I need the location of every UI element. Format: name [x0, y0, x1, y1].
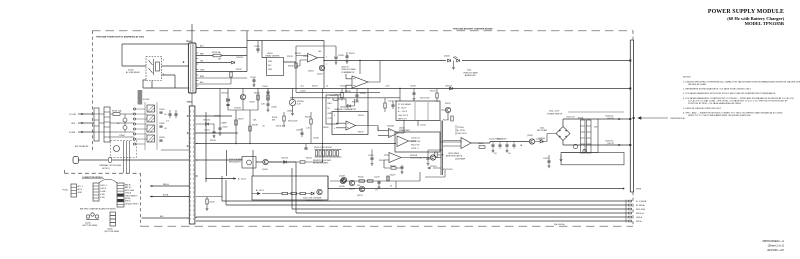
- svg-text:SW B+: SW B+: [125, 201, 132, 203]
- svg-text:5 SW: 5 SW: [100, 197, 105, 199]
- resistor R5219: [451, 116, 453, 121]
- wire opamp out: [318, 57, 325, 59]
- svg-text:5200 VOLTAGE: 5200 VOLTAGE: [229, 158, 243, 161]
- speaker sense wire: [328, 176, 624, 189]
- junction dots mid: [235, 143, 236, 144]
- svg-text:.05: .05: [164, 128, 167, 130]
- transistor bottom view lead 3: [95, 215, 98, 218]
- diode VR5202 sym: [348, 105, 351, 108]
- svg-text:3 GND: 3 GND: [100, 191, 106, 193]
- capacitor C5234 sym: [355, 95, 358, 96]
- wire BLK: [142, 217, 190, 219]
- return loop box: [561, 153, 624, 165]
- wire filter verticals: [136, 102, 157, 150]
- wire c5212: [371, 150, 373, 163]
- resistor R5218h: [300, 161, 305, 163]
- wire secondary tap wires: [196, 116, 396, 144]
- capacitor C5002: [159, 126, 162, 127]
- svg-text:C5222: C5222: [543, 158, 549, 160]
- svg-text:(BOTTOM VIEW): (BOTTOM VIEW): [105, 231, 120, 233]
- svg-text:A+ 14.2V: A+ 14.2V: [256, 189, 265, 192]
- svg-text:R5217 1K: R5217 1K: [411, 144, 420, 146]
- transformer T5200 secondary taps: [187, 116, 197, 218]
- svg-text:U5201A: U5201A: [410, 154, 418, 157]
- svg-text:R5227: R5227: [390, 175, 396, 177]
- svg-text:TP VOLTAGES: TP VOLTAGES: [398, 103, 412, 106]
- svg-text:CHG 14.2V: CHG 14.2V: [457, 133, 467, 135]
- capacitor C5240: [377, 182, 380, 183]
- svg-text:AC N: AC N: [78, 188, 83, 191]
- wire row: [330, 172, 420, 181]
- ground c5213: [401, 171, 404, 174]
- svg-text:C5004: C5004: [119, 135, 125, 137]
- transistor Q5207: [573, 144, 577, 148]
- LED DS5200: [457, 59, 460, 62]
- transistor Q5210: [341, 177, 346, 182]
- diode CR5231: [232, 61, 235, 64]
- wire c5232: [346, 52, 348, 60]
- svg-text:R52: R52: [594, 126, 597, 128]
- wire AC main lower: [78, 159, 189, 161]
- svg-text:B+ 13.8V: B+ 13.8V: [457, 130, 466, 132]
- resistor R5245: [387, 176, 389, 181]
- svg-text:R5230: R5230: [288, 65, 294, 67]
- capacitor C5210b: [391, 105, 394, 106]
- board outline left dashed: [91, 31, 93, 152]
- wire cap drops: [493, 142, 514, 150]
- connector J5203 pins: [117, 186, 124, 205]
- wire RED A: [150, 185, 189, 187]
- svg-text:R5219: R5219: [445, 103, 451, 105]
- svg-text:5200—5207: 5200—5207: [549, 111, 559, 113]
- svg-text:NOTES:: NOTES:: [683, 77, 691, 79]
- svg-text:CR5203: CR5203: [203, 120, 210, 122]
- AC plug symbol: [73, 157, 79, 164]
- board outline lower-left dashed: [140, 173, 142, 226]
- wire q5204: [440, 110, 462, 142]
- wire vr drops: [292, 89, 294, 113]
- svg-text:DISCONNECT: DISCONNECT: [125, 195, 138, 197]
- svg-text:C5220: C5220: [209, 202, 215, 204]
- resistor R5205: [330, 151, 332, 157]
- wire c5204: [267, 89, 269, 97]
- svg-text:5200 LOW VOLTAGE: 5200 LOW VOLTAGE: [303, 196, 322, 199]
- resistor R5202: [319, 151, 321, 157]
- junction dot x206: [205, 178, 206, 179]
- svg-text:HORIZONTAL ON: HORIZONTAL ON: [410, 156, 426, 159]
- svg-text:AC LINE RELAY: AC LINE RELAY: [126, 71, 141, 74]
- wire drops row: [379, 176, 396, 189]
- wire cr5203: [196, 124, 214, 132]
- wire mid drop: [305, 144, 307, 149]
- junction dot: [183, 61, 185, 63]
- wire r5222: [396, 165, 402, 171]
- board outline bottom dashed: [141, 225, 634, 227]
- svg-text:ANT DETAIL A1: ANT DETAIL A1: [75, 145, 88, 148]
- wire pass out: [471, 142, 529, 144]
- label power switch leader: [568, 111, 624, 113]
- svg-text:CHG 14.2 V: CHG 14.2 V: [398, 115, 409, 117]
- transistor bottom view lead 2: [91, 213, 94, 216]
- capacitor C5236 sym: [304, 148, 307, 149]
- resistor R5203: [323, 151, 325, 157]
- IC U5201 relay driver box: [267, 58, 284, 76]
- connector J5202: [93, 183, 99, 201]
- svg-text:VALUES IN OHMS.: VALUES IN OHMS.: [688, 83, 707, 86]
- junction: [322, 143, 323, 144]
- wire vertical x250: [249, 110, 251, 144]
- svg-text:C5211 .1: C5211 .1: [411, 148, 419, 150]
- ground r5211: [267, 109, 270, 112]
- svg-text:YEL: YEL: [200, 61, 204, 63]
- wire relay to transformer: [143, 66, 189, 88]
- svg-text:BAT B+: BAT B+: [125, 184, 132, 187]
- capacitor C5212 sym: [370, 158, 373, 159]
- capacitor C5206: [266, 104, 269, 105]
- transistor inside: [247, 160, 252, 165]
- svg-text:2. REPEATERS IN END BRACKETS: 2. REPEATERS IN END BRACKETS. VOLTAGE IS…: [683, 88, 752, 91]
- diode CR5203: [540, 140, 543, 143]
- overterm arrow: [638, 117, 668, 120]
- arrow N: [81, 131, 84, 133]
- transformer core marks: [191, 110, 194, 220]
- wire caps to transformer: [161, 149, 189, 151]
- svg-text:STABILIZER: STABILIZER: [399, 129, 410, 132]
- transistor Q5211: [359, 186, 364, 191]
- op-amp U5201B: [352, 76, 368, 88]
- wire c5240a: [169, 110, 171, 118]
- ground vr: [291, 112, 294, 115]
- wire alarm stub: [453, 61, 455, 67]
- wire c5214b: [428, 150, 443, 162]
- thermal detail dashed box: [111, 141, 137, 158]
- bottom view base line: [86, 219, 99, 221]
- transistor Q5204s: [430, 155, 435, 160]
- wire varistor: [124, 114, 126, 132]
- svg-text:JE/15/90—UP: JE/15/90—UP: [767, 248, 784, 252]
- bus bottom cap: [630, 191, 633, 193]
- arrow GRD: [81, 122, 84, 124]
- svg-text:R5222: R5222: [390, 165, 396, 167]
- capacitor C5232: [345, 56, 348, 57]
- board outline right dashed top: [632, 31, 634, 40]
- capacitor C5217: [505, 145, 508, 146]
- bracket line: [455, 125, 457, 135]
- package stripes: [110, 216, 116, 223]
- op-amp U5201 pass regulator: [461, 138, 471, 149]
- arrow L1: [81, 113, 84, 115]
- svg-text:5. USED IN VHF/UHF STATIONS: 5. USED IN VHF/UHF STATIONS ONLY.: [683, 107, 722, 110]
- LED arrow: [453, 56, 458, 59]
- wire riser x360: [359, 61, 361, 75]
- diode CR5200: [227, 99, 230, 102]
- svg-text:U5200: U5200: [107, 229, 113, 231]
- svg-text:68P81099E94—A: 68P81099E94—A: [762, 239, 784, 243]
- wire r5211: [267, 89, 269, 109]
- ground c5222: [548, 165, 551, 168]
- wire c5240b: [175, 110, 177, 118]
- op-amp stabilizer: [397, 136, 409, 147]
- wire lower stub: [425, 170, 445, 177]
- wire vertical x236: [235, 110, 237, 144]
- svg-text:R5234: R5234: [295, 53, 301, 55]
- transformer T5200 primary taps: [196, 48, 198, 87]
- bus wire 2: [226, 180, 628, 205]
- svg-text:R5225: R5225: [443, 119, 449, 121]
- svg-text:POWER SUPPLY MODULE: POWER SUPPLY MODULE: [708, 9, 784, 15]
- bridge diodes: [559, 130, 567, 138]
- capacitor C5221 sym: [212, 132, 215, 133]
- svg-text:GND: GND: [328, 113, 333, 115]
- svg-text:1: 1: [326, 64, 327, 66]
- svg-text:C5207: C5207: [300, 91, 306, 93]
- resistor ladder R5201-R5208 rail top: [315, 149, 342, 151]
- wire bridge bottom: [563, 141, 621, 146]
- wire vertical x220: [219, 89, 221, 125]
- svg-text:GND A: GND A: [636, 216, 643, 219]
- bus wire 5: [196, 216, 628, 218]
- svg-text:3: 3: [163, 59, 164, 61]
- relay K5200 dashed box: [146, 57, 162, 81]
- wire reg: [196, 160, 296, 166]
- wire r5250: [206, 204, 208, 207]
- bus top cap: [630, 39, 633, 41]
- resistor R5243: [359, 180, 365, 182]
- wire top run: [122, 44, 188, 66]
- wire vertical x253: [252, 150, 254, 176]
- J5203 filled pin: [117, 194, 123, 196]
- NOTES-BLOCK: [683, 77, 800, 118]
- wire c5208t: [335, 58, 337, 61]
- wire u5200b: [378, 120, 404, 135]
- ground c5208: [413, 97, 416, 100]
- svg-text:R5221: R5221: [379, 160, 385, 162]
- svg-text:R5248: R5248: [438, 154, 444, 156]
- svg-text:FL5001: FL5001: [143, 99, 149, 101]
- shaded core: [138, 90, 143, 105]
- resistor ladder rail bottom: [315, 156, 342, 158]
- primary winding hatch: [191, 44, 194, 92]
- fuse F5200: [213, 54, 221, 57]
- svg-text:R5212: R5212: [312, 86, 318, 88]
- wire knot: [385, 98, 393, 112]
- svg-text:Q5201: Q5201: [317, 73, 323, 75]
- ground c5221: [213, 135, 216, 138]
- svg-text:DIRECTLY TO THE POWER AMPLIFIE: DIRECTLY TO THE POWER AMPLIFIER ON 800/9…: [688, 114, 751, 117]
- svg-text:C5002: C5002: [159, 123, 165, 125]
- svg-text:U5200B: U5200B: [387, 126, 395, 128]
- svg-text:OVER-VOLTAGE: OVER-VOLTAGE: [341, 68, 356, 71]
- resistor R5242: [300, 192, 306, 194]
- stabilizer box: [395, 132, 440, 152]
- svg-text:SW B+ A: SW B+ A: [636, 212, 644, 215]
- svg-text:Q5209: Q5209: [349, 188, 355, 190]
- wire c5234: [356, 89, 358, 99]
- resistor R5246 sym: [310, 119, 312, 124]
- svg-text:C5236: C5236: [313, 137, 319, 139]
- wire to filter: [110, 114, 134, 137]
- svg-text:R5210: R5210: [254, 92, 260, 94]
- transistor bottom view lead 1: [86, 215, 89, 218]
- bus end pads: [629, 200, 632, 222]
- wire r5232: [230, 72, 232, 85]
- transistor Q5242: [349, 180, 354, 185]
- svg-text:CR5210: CR5210: [281, 158, 288, 160]
- TP table ticks: [415, 102, 428, 120]
- diode CR5210: [284, 161, 287, 164]
- svg-text:R5223 100: R5223 100: [443, 169, 452, 171]
- svg-text:BLK A: BLK A: [163, 194, 169, 197]
- svg-text:5200: 5200: [467, 70, 471, 72]
- svg-text:L1 LINE: L1 LINE: [69, 114, 77, 116]
- svg-text:B— 13.4 V: B— 13.4 V: [398, 111, 408, 113]
- wire bus B y88: [196, 88, 630, 90]
- resistor R5240: [282, 192, 288, 194]
- wire arrows left: [150, 185, 152, 198]
- svg-text:CR5231: CR5231: [236, 57, 243, 59]
- diode CR5211 sym: [450, 87, 453, 90]
- output arrow A-: [619, 118, 622, 120]
- control box: [252, 176, 328, 200]
- wire BLK A: [150, 196, 189, 198]
- svg-text:BATTERY CHARGER BOARD P/N 84D: BATTERY CHARGER BOARD P/N 84D84: [80, 208, 116, 211]
- resistor R5224: [479, 146, 485, 149]
- svg-text:BAT B—: BAT B—: [125, 186, 132, 189]
- choke L5001 hatch: [148, 106, 155, 113]
- wire control row: [262, 193, 311, 195]
- svg-text:B+ 13.8 V: B+ 13.8 V: [398, 108, 407, 110]
- breaker columns: [124, 141, 130, 173]
- ground r5250: [206, 207, 209, 210]
- thermal cutoff S5001: [108, 157, 112, 163]
- resistor R5211: [267, 95, 269, 100]
- diode CR5203 sym: [206, 123, 209, 126]
- ground bridge: [560, 158, 563, 161]
- svg-text:R5233: R5233: [287, 56, 293, 58]
- wire c5225: [219, 124, 221, 132]
- resistor R5222: [391, 167, 396, 169]
- svg-text:R5232: R5232: [236, 69, 242, 71]
- SHEET-ID-BLOCK: [762, 239, 784, 252]
- wire risers at 247: [246, 31, 248, 72]
- arrow A+ feed: [233, 177, 236, 179]
- over-voltage alarm zener VR5201: [448, 59, 451, 62]
- svg-text:CHARGE COMPARATOR: CHARGE COMPARATOR: [334, 108, 356, 111]
- svg-text:(13.8 V): (13.8 V): [607, 118, 614, 120]
- svg-text:C5230: C5230: [254, 46, 260, 48]
- svg-text:TPN1185B BATTERY CHARGER BOA: TPN1185B BATTERY CHARGER BOARD: [453, 27, 493, 30]
- svg-text:MOD GND: MOD GND: [125, 190, 135, 192]
- svg-text:CR5200: CR5200: [221, 93, 228, 95]
- ground caps2: [506, 149, 509, 152]
- svg-text:.05: .05: [494, 153, 497, 155]
- choke L5004 hatch: [148, 136, 155, 143]
- svg-text:R5213: R5213: [430, 91, 436, 93]
- capacitor C5216: [498, 145, 501, 146]
- transistor Q5204: [445, 107, 450, 112]
- capacitor C5208b: [412, 93, 415, 94]
- wire bus A y60: [324, 60, 630, 62]
- connector J5001: [94, 108, 99, 141]
- wire vertical x206: [205, 112, 207, 182]
- svg-text:POSITION BY MOD. VOLTAGE MEASU: POSITION BY MOD. VOLTAGE MEASURED AS TB6…: [688, 102, 742, 105]
- resistor R5210: [257, 95, 259, 100]
- transistor Q5241: [340, 178, 345, 183]
- capacitor C5213: [400, 167, 403, 168]
- svg-text:.05: .05: [508, 153, 511, 155]
- wire bridge gnd: [560, 155, 562, 158]
- svg-text:C5234: C5234: [360, 93, 366, 95]
- transistor Q5201: [319, 65, 324, 70]
- ground c5212: [371, 162, 374, 165]
- svg-text:AMP REGULATOR: AMP REGULATOR: [446, 154, 463, 157]
- wire L1: [78, 113, 94, 115]
- svg-text:5201: 5201: [268, 61, 272, 63]
- wire outputs to bus: [621, 119, 630, 145]
- svg-text:B+ 1 SEN A: B+ 1 SEN A: [636, 200, 647, 203]
- svg-text:CR5203: CR5203: [538, 138, 545, 140]
- svg-text:C5231: C5231: [303, 56, 309, 58]
- wire tp5201: [428, 167, 441, 169]
- svg-text:TPN1185B POWER SUPPLY (HARNESS: TPN1185B POWER SUPPLY (HARNESS) AT 60HZ: [96, 36, 145, 39]
- indicator circle: [583, 149, 586, 152]
- connector P5201 pins: [71, 187, 77, 193]
- capacitor C5204: [266, 92, 269, 93]
- VR arrow: [291, 101, 294, 104]
- wire fan y78: [196, 77, 247, 79]
- capacitor C5214b: [426, 158, 429, 159]
- svg-text:GRD: GRD: [71, 123, 76, 125]
- svg-text:1N4002: 1N4002: [214, 116, 221, 118]
- svg-text:A+ 14.2V: A+ 14.2V: [238, 178, 247, 181]
- bus collector bracket: [625, 200, 627, 223]
- wire A+ feed: [206, 178, 236, 180]
- svg-text:R5211 82K: R5211 82K: [276, 126, 286, 128]
- transistor Q5200: [263, 159, 268, 164]
- ground c5208t: [335, 61, 338, 64]
- bus wire 3: [292, 168, 628, 209]
- transistor Q5203: [240, 94, 245, 99]
- transformer T5200 secondary: [189, 106, 195, 224]
- wire opamp b out: [368, 61, 380, 83]
- svg-text:C5205: C5205: [249, 102, 255, 104]
- svg-text:K5201: K5201: [578, 117, 583, 119]
- resistor R5201: [316, 151, 318, 157]
- svg-text:F5200 3A: F5200 3A: [212, 51, 221, 54]
- wire lower rails: [290, 92, 400, 98]
- op-amp U5201A: [389, 153, 401, 163]
- svg-text:1N400: 1N400: [287, 110, 293, 112]
- svg-text:REF 6.2 V: REF 6.2 V: [398, 118, 407, 120]
- bus junction squares: [629, 60, 634, 147]
- varistor RV5001: [123, 126, 127, 130]
- wire c5208: [413, 89, 415, 98]
- capacitor C5209: [300, 133, 303, 134]
- svg-text:3.3: 3.3: [166, 121, 169, 123]
- svg-text:3: 3: [334, 128, 335, 130]
- svg-text:.05: .05: [164, 114, 167, 116]
- wire TP box feed: [400, 89, 418, 127]
- connector J5203: [117, 183, 124, 207]
- svg-text:BLU: BLU: [200, 46, 204, 48]
- svg-text:2 AC N: 2 AC N: [100, 187, 107, 190]
- svg-text:NOTE 5): NOTE 5): [102, 168, 110, 170]
- output arrow B+: [619, 144, 622, 146]
- svg-text:R5213 10K: R5213 10K: [420, 97, 430, 99]
- wire to bridge: [535, 134, 556, 142]
- resistor R5238: [249, 126, 251, 131]
- filter choke L5001: [147, 105, 155, 112]
